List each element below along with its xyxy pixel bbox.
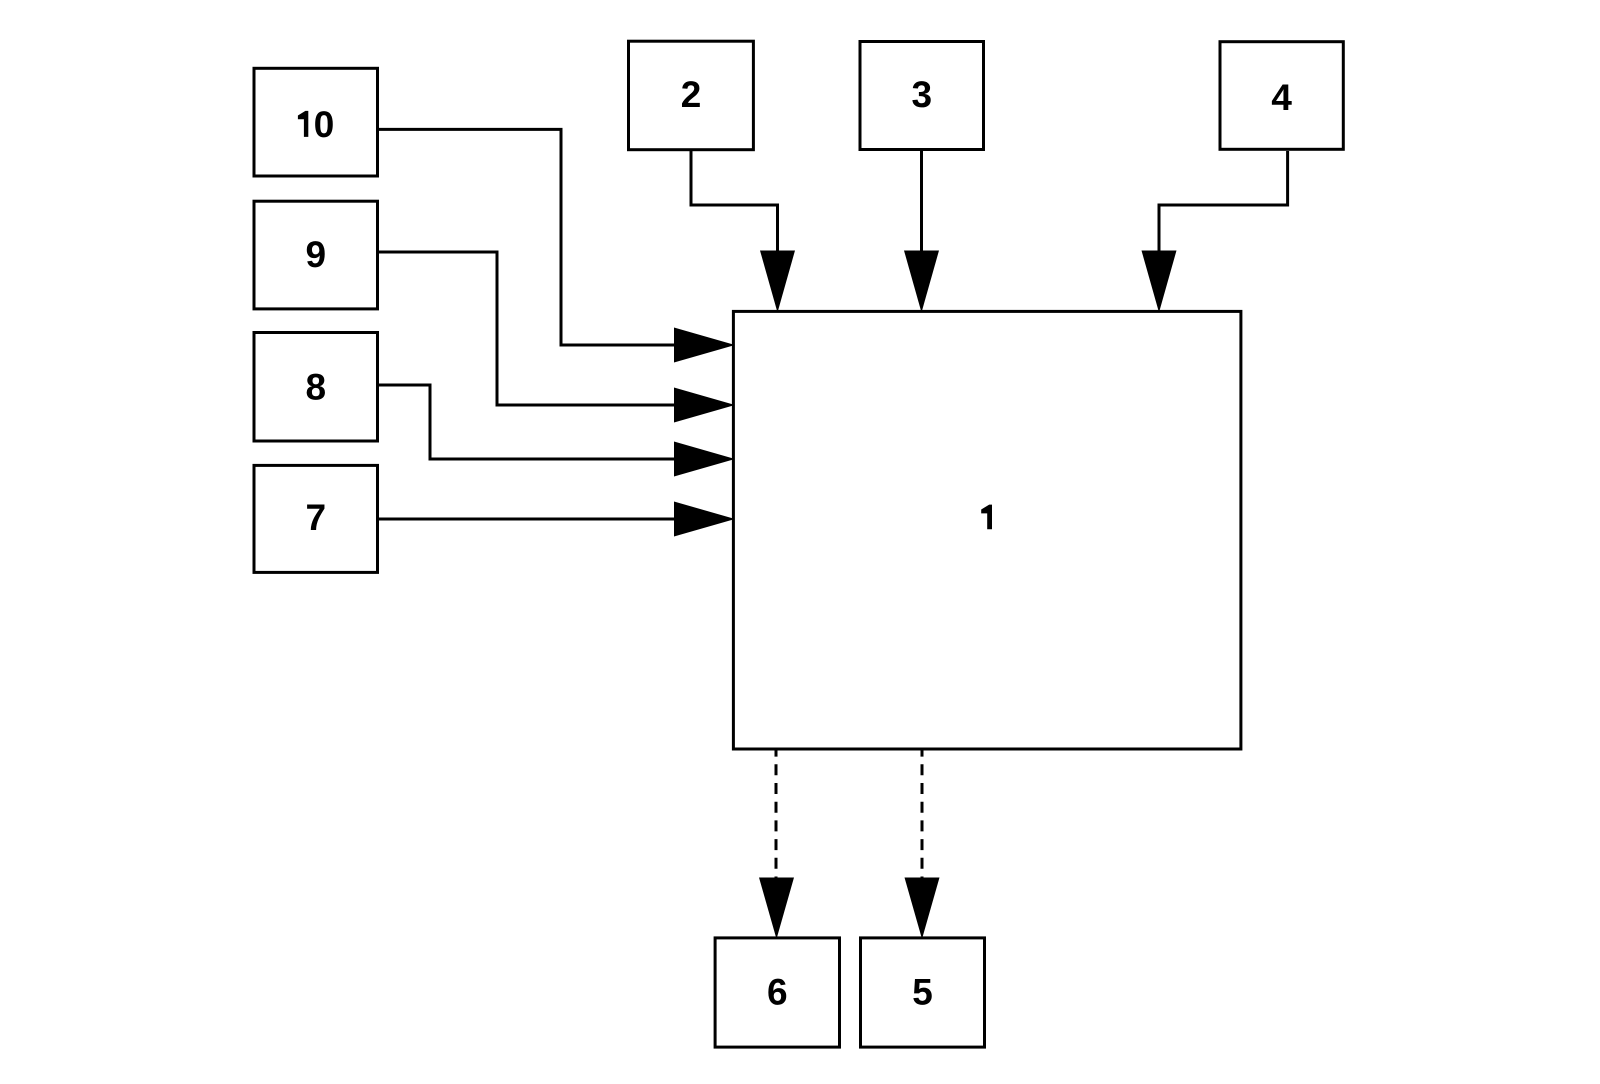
block 5 — [861, 938, 985, 1047]
label 1 — [981, 505, 992, 530]
label 9 — [307, 241, 325, 267]
wire 4 to 1 — [1159, 151, 1288, 253]
block 6 — [715, 938, 839, 1047]
label 3 — [912, 81, 930, 107]
label 6 — [768, 979, 786, 1005]
label 8 — [307, 374, 325, 400]
wire 8 to 1 — [378, 385, 676, 459]
block 2 — [629, 41, 754, 150]
wire 7 to 1 — [378, 518, 676, 521]
dashed wire 1 to 6 — [775, 749, 778, 878]
arrowhead into 5 from 1 — [905, 878, 940, 940]
block 3 — [860, 42, 984, 150]
block 8 — [254, 333, 378, 442]
arrowhead into 1 from 10 — [674, 328, 735, 363]
arrowhead into 1 from 8 — [674, 442, 735, 477]
block 4 — [1220, 42, 1343, 150]
wire 3 to 1 — [920, 151, 923, 253]
label 2 — [682, 81, 700, 107]
arrowhead into 1 from 9 — [674, 388, 735, 423]
block 9 — [254, 201, 378, 309]
arrowhead into 1 from 2 — [760, 251, 795, 313]
arrowhead into 1 from 3 — [904, 251, 939, 313]
block 10 — [254, 68, 378, 176]
wire 10 to 1 — [378, 129, 676, 345]
arrowhead into 1 from 7 — [674, 502, 735, 537]
label 5 — [913, 979, 931, 1005]
wire 2 to 1 — [691, 151, 778, 253]
arrowhead into 1 from 4 — [1142, 251, 1177, 313]
block 1 — [733, 311, 1241, 749]
wire 9 to 1 — [378, 252, 676, 405]
label 4 — [1272, 85, 1292, 110]
arrowhead into 6 from 1 — [759, 878, 794, 940]
label 7 — [307, 505, 324, 530]
dashed wire 1 to 5 — [921, 749, 924, 878]
label 10 — [298, 111, 333, 137]
block 7 — [254, 465, 378, 572]
